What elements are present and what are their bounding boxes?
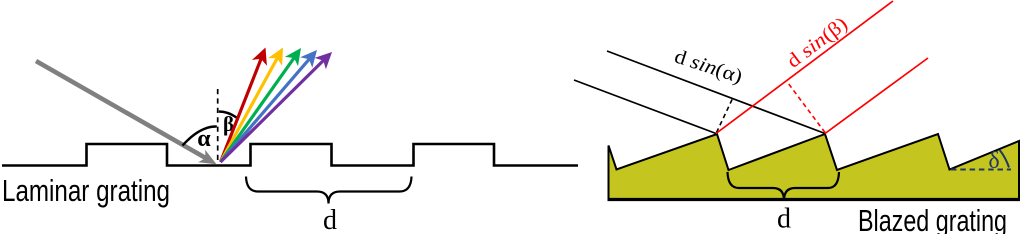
svg-text:d: d: [777, 204, 791, 235]
svg-text:α: α: [197, 126, 211, 152]
incident ray 1 (black, to peak 2): [607, 51, 825, 134]
path difference dashed (red): [788, 83, 825, 133]
incident ray arrowhead: [198, 150, 216, 165]
diffracted ray blue: [221, 50, 318, 162]
diffracted ray gold: [221, 48, 284, 163]
incident ray 2 (black, to peak 1): [574, 80, 716, 134]
svg-text:d sin(α): d sin(α): [672, 46, 745, 89]
brace for period d (laminar): [246, 177, 412, 204]
beta arc: [219, 112, 237, 118]
svg-text:Laminar grating: Laminar grating: [2, 173, 170, 208]
brace for period d (blazed): [728, 172, 840, 201]
path difference dashed (black): [717, 97, 734, 133]
diffracted ray 1 (red, from peak 1): [716, 1, 893, 134]
alpha arc: [183, 126, 217, 145]
svg-text:d sin(β): d sin(β): [783, 13, 852, 73]
blaze angle arc (navy): [1000, 150, 1010, 168]
grating normal (dashed): [217, 89, 219, 160]
blazed grating body: [609, 134, 1020, 199]
diffracted ray red: [221, 48, 267, 163]
svg-text:Blazed grating: Blazed grating: [858, 203, 1007, 234]
diffracted ray purple: [221, 52, 333, 162]
blazed grating base line: [608, 198, 1021, 201]
blaze angle dashed line (navy): [951, 168, 1011, 170]
incident ray (gray): [36, 61, 208, 160]
laminar grating profile: [2, 144, 578, 166]
diffracted ray 2 (red, from peak 2): [825, 58, 928, 134]
svg-text:δ: δ: [988, 148, 999, 174]
diffracted ray green: [221, 48, 302, 162]
svg-text:d: d: [323, 205, 337, 234]
